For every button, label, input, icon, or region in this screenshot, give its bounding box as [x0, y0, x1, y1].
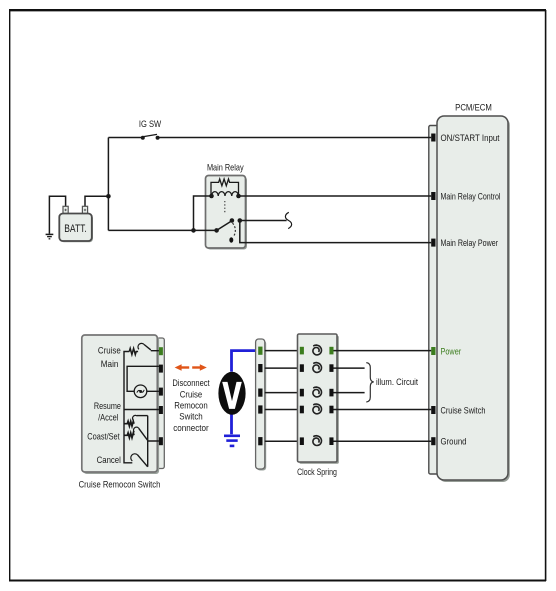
- svg-text:ON/START Input: ON/START Input: [441, 133, 500, 143]
- switch cruise main: [138, 343, 144, 349]
- relay coil suppression resistor: [211, 179, 239, 196]
- junction battery/IGSW: [106, 194, 111, 199]
- svg-text:Cruise: Cruise: [98, 345, 121, 355]
- svg-text:Main: Main: [101, 359, 119, 369]
- switch box Cruise Remocon Switch: [84, 337, 160, 474]
- pin Main Relay Power: [431, 239, 435, 247]
- battery BATT.: [59, 206, 93, 242]
- ground voltmeter (blue): [224, 436, 240, 446]
- vehicle harness connector strip: [256, 339, 267, 471]
- switch coast/set: [133, 427, 138, 432]
- disconnect arrows: [175, 364, 207, 371]
- switch resume/accel: [132, 415, 137, 420]
- clock spring spirals: [313, 345, 322, 445]
- wire battery positive to junction: [85, 196, 108, 214]
- brace illum circuit: [366, 363, 373, 402]
- voltmeter wiring (blue): [232, 351, 259, 435]
- wire IG SW to ON/START Input: [158, 137, 432, 139]
- svg-text:IG SW: IG SW: [139, 119, 161, 129]
- svg-text:Cruise Switch: Cruise Switch: [441, 405, 486, 415]
- MAIN-WIRES: [49, 138, 431, 243]
- PCM connector strip: [429, 126, 441, 475]
- pin ON/START Input: [431, 134, 435, 142]
- relay Main Relay: [207, 162, 244, 242]
- wire power row: [334, 350, 432, 352]
- lamp illumination: [134, 385, 147, 398]
- cruise switch connector (switch side): [157, 338, 164, 469]
- wire relay to Main Relay Power: [240, 221, 431, 243]
- pin Cruise Switch: [431, 406, 435, 414]
- clock spring pins right: [329, 347, 333, 445]
- svg-text:Resume: Resume: [94, 401, 121, 411]
- svg-text:Remocon: Remocon: [174, 401, 208, 411]
- wire relay coil to Main Relay Control: [239, 195, 432, 197]
- ECU box PCM/ECM: [437, 101, 510, 482]
- svg-text:/Accel: /Accel: [98, 412, 118, 422]
- svg-text:Switch: Switch: [179, 412, 203, 422]
- svg-text:Cruise: Cruise: [180, 389, 203, 399]
- wire relay contact stub: [240, 220, 287, 222]
- pin Ground: [431, 437, 435, 445]
- pin Main Relay Control: [431, 192, 435, 200]
- wire battery bus to relay switch: [108, 229, 216, 231]
- resistor coast/set: [124, 433, 134, 438]
- svg-text:Power: Power: [441, 346, 462, 356]
- wire voltmeter probe to connector: [232, 351, 259, 372]
- relay actuator dotted link: [224, 201, 226, 214]
- svg-text:Main Relay: Main Relay: [207, 162, 244, 172]
- clock spring pins left: [300, 347, 304, 445]
- wires harness to clock spring: [265, 351, 300, 442]
- wire cruise switch common to pin: [124, 409, 159, 411]
- wire illumination loop: [127, 366, 159, 391]
- wire voltmeter to ground: [230, 414, 233, 434]
- note disconnect text: [172, 378, 210, 433]
- resistor resume/accel: [124, 421, 134, 426]
- wire ground row: [334, 440, 432, 442]
- svg-text:Disconnect: Disconnect: [172, 378, 210, 388]
- relay coil: [212, 192, 239, 196]
- relay switch: [214, 228, 219, 233]
- svg-text:PCM/ECM: PCM/ECM: [455, 101, 492, 112]
- wires clock spring to PCM: [334, 351, 432, 442]
- chassis ground symbol: [46, 234, 54, 238]
- svg-text:Main Relay Power: Main Relay Power: [441, 238, 499, 248]
- CRUISE-SWITCH-ASSY: [79, 335, 165, 490]
- wire junction to relay coil: [194, 196, 212, 230]
- clock spring box: [297, 334, 339, 478]
- wire cruise switch row: [334, 409, 432, 411]
- wire switch common bus: [124, 352, 132, 463]
- wire battery negative to chassis ground: [49, 196, 65, 234]
- wire IG SW feed vertical: [107, 138, 109, 231]
- wire IG SW row left: [108, 137, 142, 139]
- voltmeter V: [218, 372, 245, 415]
- svg-text:Coast/Set: Coast/Set: [87, 431, 120, 441]
- IG SW switch: [139, 119, 161, 140]
- svg-text:Ground: Ground: [441, 437, 467, 447]
- pins on switch connector: [159, 347, 163, 355]
- svg-text:Clock Spring: Clock Spring: [297, 467, 337, 478]
- resistor cruise main: [129, 348, 138, 354]
- svg-text:Cancel: Cancel: [97, 455, 121, 465]
- junction relay feed: [191, 228, 196, 233]
- svg-text:Cruise Remocon Switch: Cruise Remocon Switch: [79, 479, 161, 490]
- svg-text:Main Relay Control: Main Relay Control: [441, 191, 501, 201]
- relay box Main Relay: [207, 177, 247, 250]
- svg-text:BATT.: BATT.: [64, 223, 87, 235]
- wire break squiggle: [285, 212, 291, 228]
- switch cancel: [131, 454, 138, 461]
- svg-text:connector: connector: [173, 423, 209, 433]
- wire switches common output: [148, 416, 159, 467]
- svg-text:illum. Circuit: illum. Circuit: [376, 377, 418, 387]
- wire illum minus: [334, 392, 365, 394]
- pin Power (green): [431, 347, 435, 355]
- wire illum plus: [334, 367, 365, 369]
